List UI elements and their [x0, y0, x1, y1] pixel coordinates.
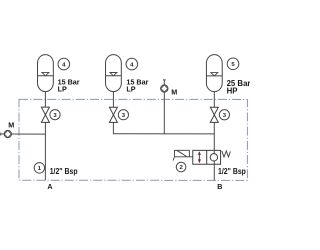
svg-text:HP: HP: [227, 87, 238, 96]
valve 2 body (2-position): [193, 150, 221, 164]
svg-text:1/2" Bsp: 1/2" Bsp: [50, 167, 78, 176]
accumulator 1 gas triangle: [42, 72, 49, 75]
cap tick on middle M stub: [163, 79, 166, 81]
accumulator 3 gas triangle: [211, 73, 218, 76]
wire: valve 3a down to port A: [44, 122, 46, 180]
middle test point M (diamond with circle): [161, 85, 168, 92]
balloon 2 for solenoid valve: [176, 162, 186, 172]
balloon 3 for valve 3a: [50, 110, 60, 120]
balloon 3 for valve 3b: [118, 110, 128, 120]
shut-off valve 3a (bowtie): [41, 107, 49, 122]
wire: valve 3c through solenoid valve 2 to port B: [213, 122, 215, 180]
accumulator 5 (25 Bar HP) shell: [206, 55, 222, 92]
accumulator 2 divider line: [106, 75, 122, 77]
valve 2 return spring: [222, 151, 231, 157]
valve 2 flow arrow (double headed): [198, 151, 201, 163]
svg-text:B: B: [217, 182, 222, 191]
balloon 1 (manifold): [34, 163, 44, 173]
left test point M (diamond with circle): [4, 130, 11, 137]
wire: accumulator 2 to valve 3b: [112, 91, 114, 107]
svg-text:LP: LP: [58, 84, 67, 93]
valve 2 check ball (circle): [210, 154, 217, 161]
shut-off valve 3b (bowtie): [109, 107, 117, 122]
shut-off valve 3c (bowtie): [210, 107, 218, 122]
balloon 4 for accumulator 1: [58, 58, 70, 70]
svg-text:A: A: [47, 182, 52, 191]
svg-text:M: M: [171, 87, 177, 96]
wire: accumulator 1 to valve 3a: [44, 91, 46, 107]
wire: left test point M to line A: [1, 133, 46, 135]
dashed enclosure border: [19, 99, 247, 180]
accumulator 3 divider line: [206, 75, 222, 77]
svg-text:M: M: [8, 121, 14, 130]
wire: middle M capped stub above: [163, 80, 165, 85]
balloon 3 for valve 3c: [219, 110, 229, 120]
balloon 4 for accumulator 2: [126, 58, 138, 70]
wire: valve 3b down and right to junction on line B: [113, 122, 214, 134]
cap tick on left M stub: [0, 133, 2, 136]
wire: accumulator 3 to valve 3c: [213, 91, 215, 107]
accumulator 4 (15 Bar LP) shell: [38, 55, 54, 92]
svg-text:LP: LP: [126, 85, 135, 94]
wire: middle test point M down to manifold line: [163, 93, 165, 134]
svg-text:1/2" Bsp: 1/2" Bsp: [218, 167, 246, 176]
solenoid coil of valve 2: [173, 150, 193, 160]
accumulator 1 divider line: [38, 75, 54, 77]
balloon 5 for accumulator 3: [227, 58, 239, 70]
accumulator 2 gas triangle: [110, 72, 117, 75]
valve 2 body divider: [206, 150, 208, 164]
accumulator 4 (15 Bar LP) #2 shell: [106, 55, 122, 92]
